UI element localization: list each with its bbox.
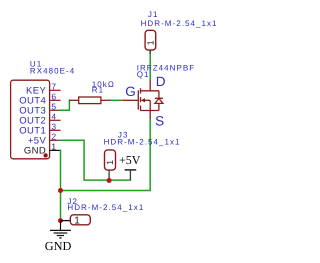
svg-text:7: 7 (51, 81, 56, 91)
svg-text:R1: R1 (92, 86, 104, 95)
svg-text:3: 3 (51, 121, 56, 131)
svg-text:2: 2 (51, 131, 56, 141)
svg-text:G: G (125, 84, 136, 99)
svg-text:HDR-M-2.54_1x1: HDR-M-2.54_1x1 (104, 137, 181, 146)
svg-text:1: 1 (146, 40, 156, 45)
svg-text:RX480E-4: RX480E-4 (30, 66, 75, 75)
svg-text:5: 5 (51, 101, 56, 111)
svg-text:1: 1 (74, 216, 80, 227)
svg-text:HDR-M-2.54_1x1: HDR-M-2.54_1x1 (67, 203, 144, 212)
svg-text:1: 1 (105, 160, 115, 165)
svg-text:Q1: Q1 (137, 70, 150, 79)
svg-text:GND: GND (45, 239, 72, 253)
svg-text:GND: GND (24, 145, 46, 156)
svg-text:D: D (156, 74, 166, 89)
svg-text:+5V: +5V (119, 153, 141, 167)
svg-text:S: S (155, 113, 164, 128)
svg-text:1: 1 (51, 141, 56, 151)
svg-text:J1: J1 (148, 10, 159, 19)
svg-text:4: 4 (51, 111, 56, 121)
svg-text:6: 6 (51, 91, 56, 101)
svg-text:HDR-M-2.54_1x1: HDR-M-2.54_1x1 (141, 19, 218, 28)
